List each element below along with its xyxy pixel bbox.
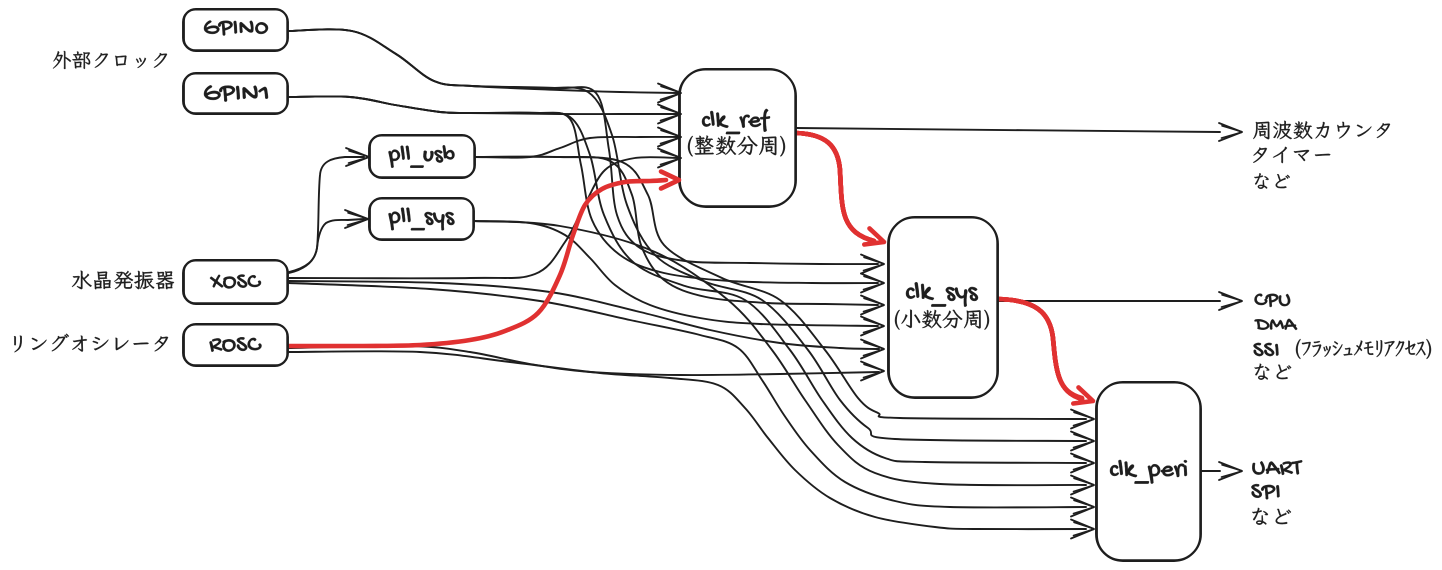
wire clk_peri output: [1201, 470, 1220, 472]
wire GPIN1 to clk_ref: [288, 96, 678, 114]
arrowhead into clk_peri 6: [1071, 520, 1094, 539]
wire red clk_ref to clk_sys: [796, 133, 874, 241]
arrowhead into clk_ref 3: [658, 128, 681, 147]
arrowhead into clk_sys 5: [861, 340, 884, 359]
label shousuu-bunshuu: [895, 310, 989, 330]
arrowhead into clk_ref 1: [658, 84, 681, 103]
arrowhead into clk_sys 6: [861, 362, 884, 381]
label UART: [1252, 460, 1302, 475]
label clk_peri: [1110, 460, 1187, 484]
wire red clk_ref to clk_sys: [796, 133, 874, 241]
wire ROSC to clk_peri: [289, 351, 1086, 529]
arrowhead into clk_peri 2: [1071, 432, 1094, 451]
label pll_usb: [389, 145, 455, 167]
arrowhead into clk_sys 1: [861, 255, 884, 274]
wire red clk_sys to clk_peri: [998, 299, 1082, 398]
arrowhead red into clk_peri: [1073, 387, 1093, 403]
wire pll_sys to clk_peri: [474, 221, 1086, 485]
arrowhead into clk_ref 2: [658, 105, 681, 124]
label GPIN1: [204, 85, 268, 101]
arrowhead into pll_sys: [345, 210, 368, 228]
label nado-3: [1252, 508, 1291, 525]
wire red clk_sys to clk_peri: [998, 299, 1082, 399]
label GPIN0: [204, 21, 268, 36]
arrowhead into clk_peri 5: [1071, 498, 1094, 517]
label nado-2: [1255, 364, 1292, 380]
wire GPIN1 to clk_sys: [288, 96, 878, 283]
label clk_ref: [702, 109, 770, 134]
wire XOSC to clk_sys: [289, 281, 879, 349]
arrowhead red into clk_ref: [661, 172, 679, 189]
wire pll_usb to clk_sys: [475, 157, 878, 305]
box pll_usb: [369, 135, 475, 178]
wire XOSC to clk_ref: [289, 157, 678, 278]
arrowhead into clk_peri 1: [1071, 410, 1094, 429]
wire GPIN0 to clk_peri: [288, 29, 1086, 441]
label nado-1: [1254, 173, 1289, 188]
wire pll_usb to clk_peri: [475, 157, 1086, 419]
arrowhead clk_ref output arrow: [1219, 123, 1242, 141]
label CPU: [1255, 294, 1291, 307]
wire XOSC to pll_usb: [289, 157, 364, 272]
box clk_sys: [888, 217, 998, 398]
label SSI: [1254, 343, 1279, 356]
arrowhead into clk_peri 4: [1071, 476, 1094, 495]
label ring-oscillator: [14, 334, 168, 352]
box clk_ref: [679, 69, 796, 207]
wire ROSC to clk_sys: [289, 346, 879, 375]
box GPIN1: [183, 73, 288, 114]
box pll_sys: [369, 198, 474, 240]
box XOSC: [183, 260, 288, 304]
wire pll_sys to clk_sys: [474, 221, 878, 326]
arrowhead clk_peri output arrow: [1219, 462, 1242, 480]
label ROSC: [210, 337, 262, 351]
arrowhead into clk_sys 2: [861, 274, 884, 293]
wire GPIN0 to clk_sys: [288, 29, 878, 264]
wire red clk_sys to clk_peri: [998, 299, 1082, 399]
arrowhead clk_sys output arrow: [1219, 292, 1242, 310]
wire red clk_sys to clk_peri: [998, 299, 1082, 399]
label gaibu-clock: [53, 51, 167, 69]
wire clk_sys output: [998, 300, 1220, 302]
wire XOSC to clk_peri: [289, 283, 1086, 507]
label seisuu-bunshuu: [688, 136, 785, 157]
arrowhead into clk_sys 4: [861, 317, 884, 336]
wire red ROSC to clk_ref: [289, 180, 666, 346]
arrowhead into clk_sys 3: [861, 296, 884, 315]
label SPI: [1251, 484, 1279, 499]
arrowhead into pll_usb: [346, 148, 369, 166]
arrowhead into clk_ref 4: [658, 149, 681, 168]
label shuuhasuu-counter: [1253, 121, 1390, 139]
label suishou-hasshinki: [72, 271, 174, 290]
label timer: [1253, 147, 1330, 163]
wire red clk_sys to clk_peri: [998, 299, 1082, 399]
wire XOSC to pll_sys: [289, 219, 364, 273]
box clk_peri: [1096, 382, 1201, 561]
box GPIN0: [183, 9, 288, 51]
label clk_sys: [906, 282, 978, 306]
wire red clk_ref to clk_sys: [796, 133, 874, 241]
label pll_sys: [389, 208, 455, 231]
wire GPIN1 to clk_peri: [288, 96, 1086, 463]
label XOSC: [210, 275, 261, 289]
arrowhead into clk_peri 3: [1071, 454, 1094, 473]
label DMA: [1255, 319, 1298, 330]
wire red clk_ref to clk_sys: [796, 133, 874, 241]
wire GPIN0 to clk_ref: [288, 29, 678, 93]
wire pll_usb to clk_ref: [475, 137, 678, 158]
label flash-memory-access: [1296, 339, 1431, 359]
wire clk_ref output: [796, 128, 1220, 132]
wire red clk_ref to clk_sys: [796, 133, 874, 241]
arrowhead red into clk_sys: [864, 228, 884, 244]
box ROSC: [183, 324, 288, 366]
